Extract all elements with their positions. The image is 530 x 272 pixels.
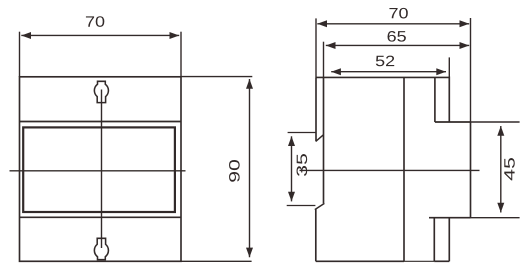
dim 35 dimension line [291, 136, 293, 201]
bottom terminal slot bottom edge [434, 260, 449, 262]
dim 70 front extension line left [19, 32, 21, 77]
front bottom step edge [429, 217, 471, 219]
dim text 52 side view [376, 56, 394, 67]
dim 90 extension line top [181, 76, 252, 78]
side view lower back edge [315, 209, 317, 261]
display window rectangle [23, 127, 175, 212]
dim 70 side dimension line [317, 23, 469, 25]
dim 45 bottom extension line [471, 217, 520, 219]
dim 52 right arrowhead [436, 68, 446, 75]
dim 90 top arrowhead [246, 79, 253, 89]
dim 70 front dimension line [21, 34, 179, 36]
dim 90 extension line bottom [181, 260, 252, 262]
dims 70 65 right extension line [470, 18, 472, 122]
bottom mounting keyhole [94, 238, 108, 259]
side view front edge [470, 122, 472, 218]
dim text 35 side view (rotated) [297, 154, 308, 176]
dim 45 top arrowhead [497, 126, 504, 136]
bottom terminal slot left edge [433, 218, 435, 262]
front panel lower edge line [20, 216, 182, 218]
dim text 90 front view (rotated) [229, 160, 240, 182]
vertical centerline front view [101, 90, 103, 249]
dim 65 left extension line [323, 42, 325, 78]
front panel upper edge line [20, 121, 182, 123]
horizontal centerline front view [10, 170, 186, 172]
top terminal slot left edge [434, 77, 436, 122]
bottom terminal slot right edge [448, 218, 450, 262]
dim 45 top extension line [471, 121, 520, 123]
dim 45 dimension line [500, 126, 502, 213]
front face top edge [435, 121, 471, 123]
dim 52 right extension line [448, 57, 450, 77]
side view middle vertical line [403, 77, 405, 261]
side view bottom edge [316, 260, 404, 262]
din clip lower tab line / dim 35 bottom extension [287, 205, 316, 207]
dim text 65 side view [388, 31, 406, 42]
dim 70 front left arrowhead [21, 32, 31, 39]
dim 52 dimension line [331, 71, 446, 73]
side view upper back edge [315, 77, 317, 141]
dim 45 bottom arrowhead [497, 203, 504, 213]
dim 65 dimension line [326, 44, 469, 46]
dim 70 side right arrowhead [460, 20, 470, 27]
side view inner back edge [323, 77, 325, 203]
top terminal slot right edge [448, 77, 450, 123]
front view body outline [20, 77, 182, 261]
side view bottom edge thin part [404, 260, 434, 262]
dim text 70 front view [86, 16, 104, 27]
dim 65 right arrowhead [460, 42, 470, 49]
dim 70 side left extension line [315, 18, 317, 77]
din clip upper wedge [316, 135, 324, 142]
dim 52 left arrowhead [331, 68, 341, 75]
dim 35 top arrowhead [288, 136, 295, 146]
top mounting keyhole [94, 81, 108, 102]
dim 70 side left arrowhead [317, 20, 327, 27]
dim 90 bottom arrowhead [246, 248, 253, 258]
dim 35 bottom arrowhead [288, 192, 295, 202]
din clip upper tab line / dim 35 top extension [288, 132, 317, 134]
dim 90 dimension line [249, 79, 251, 257]
horizontal centerline side view [300, 169, 480, 171]
dim 70 front extension line right [180, 32, 182, 77]
dim text 70 side view [389, 8, 407, 19]
dim text 45 side view (rotated) [504, 158, 514, 180]
din clip lower wedge [315, 203, 325, 209]
side view top edge [316, 76, 450, 78]
dim 65 left arrowhead [326, 42, 336, 49]
dim 70 front right arrowhead [170, 32, 180, 39]
